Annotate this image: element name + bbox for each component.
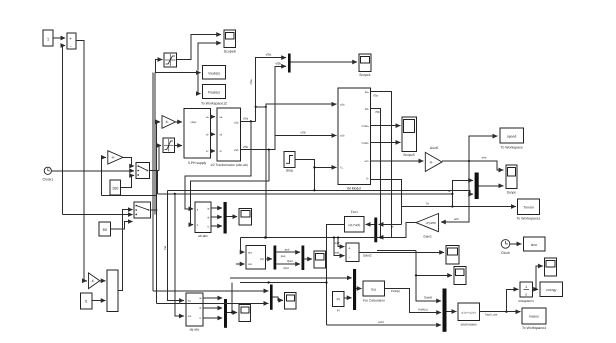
wire Constant60 to Switch2 input 3 bbox=[111, 222, 133, 230]
wire supply vb to transformation bbox=[210, 133, 215, 135]
wire Total Loss to junction bbox=[479, 311, 507, 317]
wire wm line into PQ block input bbox=[236, 263, 245, 265]
clock source Clock bbox=[501, 240, 510, 255]
constant block Constant 100 bbox=[110, 180, 121, 195]
svg-text:ab-abc: ab-abc bbox=[198, 234, 208, 238]
wire vSb riser into top mux input 2 bbox=[275, 61, 286, 135]
wire PsiRb to Scope5 bbox=[371, 141, 401, 143]
wire iSa output down to PQ bus bbox=[371, 92, 392, 238]
svg-text:Vsab(s): Vsab(s) bbox=[208, 71, 220, 75]
wire bus down to Psab(s) bbox=[198, 73, 201, 94]
wire bus to Mux8 input 1 bbox=[153, 290, 268, 292]
gain block Gain1 (left-pointing -2*pi/60) bbox=[416, 214, 439, 239]
wire Fcn output PsiR(u) to Mux11 input 2 bbox=[385, 289, 441, 313]
svg-text:PsiRa: PsiRa bbox=[362, 125, 369, 128]
junction current bus nodes bbox=[264, 236, 382, 238]
svg-text:Fcn1: Fcn1 bbox=[351, 210, 358, 214]
wire Clock to time workspace bbox=[510, 243, 522, 245]
wire stator current bus horizontal bbox=[241, 237, 392, 239]
svg-text:psid*: psid* bbox=[334, 241, 341, 245]
wire PsiRa to Scope5 bbox=[371, 125, 401, 127]
svg-text:vSa: vSa bbox=[249, 79, 253, 85]
mux Mux6 (dq-abc out) bbox=[224, 299, 227, 328]
svg-text:losses: losses bbox=[529, 315, 539, 319]
wire wm riser down to Gain1 input bbox=[441, 161, 469, 222]
subsystem block IM Model bbox=[338, 88, 371, 190]
wire Integrator to energy bbox=[532, 288, 538, 290]
wire Te output to torque bus bbox=[371, 180, 402, 207]
wire Integrator riser to Scope7 bbox=[536, 266, 543, 289]
junction Te node bbox=[451, 205, 453, 207]
svg-text:-2*pi/60: -2*pi/60 bbox=[425, 221, 436, 225]
function block total losses u(1)^2+u(2)^2 bbox=[458, 303, 479, 327]
to-workspace block Vsab(s) bbox=[203, 66, 226, 79]
svg-text:f(u): f(u) bbox=[371, 287, 376, 291]
subsystem block ab-abc bbox=[195, 202, 211, 238]
svg-text:PsiRb: PsiRb bbox=[362, 142, 369, 145]
svg-text:dq-abc: dq-abc bbox=[190, 328, 200, 332]
label vSb on wire bbox=[300, 131, 306, 135]
svg-text:Fcn Calculation: Fcn Calculation bbox=[363, 299, 385, 303]
svg-text:Clock: Clock bbox=[501, 251, 510, 255]
wire Fcn1 output left and down to psid bus bbox=[327, 224, 345, 325]
svg-text:PsiR(u): PsiR(u) bbox=[418, 308, 427, 312]
svg-text:vSa: vSa bbox=[266, 53, 272, 57]
wire wm riser to speed workspace bbox=[469, 136, 497, 161]
wire iSb output down to PQ bus bbox=[371, 109, 381, 238]
demux Demux2 (P,Q) bbox=[274, 246, 277, 270]
step source Step (load torque) bbox=[284, 152, 295, 173]
svg-text:Psab(s): Psab(s) bbox=[208, 91, 220, 95]
svg-text:thd: thd bbox=[163, 246, 167, 250]
sum block Sum1 bbox=[67, 33, 76, 49]
wire Saturation2 to 3-PH supply input 2 bbox=[175, 145, 183, 147]
svg-text:vSa: vSa bbox=[234, 122, 239, 125]
wire riser to dq-abc input 2 bbox=[175, 194, 184, 316]
svg-text:Te: Te bbox=[426, 202, 430, 206]
to-workspace block Tmotor bbox=[516, 199, 540, 221]
wire long psid bus A bbox=[230, 277, 352, 279]
svg-text:psq: psq bbox=[281, 254, 286, 258]
svg-text:energy: energy bbox=[546, 288, 557, 292]
to-workspace block losses bbox=[522, 308, 546, 330]
wire vSb branch to ab-abc input 2 bbox=[190, 150, 268, 225]
svg-text:PQ: PQ bbox=[260, 258, 264, 261]
wire Switch2 output stub bbox=[151, 209, 158, 211]
svg-text:iSa: iSa bbox=[365, 91, 369, 94]
svg-text:f1: f1 bbox=[85, 300, 88, 304]
mux Mux3 (P,Q) bbox=[302, 246, 305, 271]
wire Gain to Switch1 input 1 bbox=[123, 157, 134, 166]
wire Gain3 to 3-PH supply input 1 bbox=[176, 121, 183, 123]
svg-text:+: + bbox=[69, 36, 72, 41]
wire theta riser to dq-abc input 1 bbox=[168, 190, 184, 300]
wire Sum2 output to ScopeA bbox=[359, 251, 444, 253]
svg-text:iSb: iSb bbox=[375, 110, 380, 114]
wire loop bottom bbox=[102, 195, 157, 197]
svg-text:-K-: -K- bbox=[91, 279, 95, 283]
wire Mux11 to total losses bbox=[447, 311, 457, 313]
mux Mux (vSa,vSb) top bbox=[288, 54, 291, 73]
wire f1 to Mux4 bbox=[92, 300, 106, 302]
constant block f1 bbox=[80, 293, 92, 309]
mux Mux8 (flux components) bbox=[270, 285, 273, 310]
wire Saturation1 output to Scope6 input 1 bbox=[177, 35, 222, 60]
wire riser onto Mux6 output wire bbox=[231, 283, 233, 313]
subsystem block 3-PH supply bbox=[184, 109, 210, 165]
scope block Scope2 bbox=[239, 208, 252, 225]
wire long horizontal feed at y=72.6 bbox=[155, 72, 201, 74]
svg-text:psd: psd bbox=[285, 247, 290, 251]
svg-text:vSb: vSb bbox=[276, 61, 282, 65]
wire PQ to demux bbox=[266, 258, 272, 260]
switch block Switch2 bbox=[134, 202, 151, 218]
scope block Scope (wm,T) bbox=[506, 165, 517, 194]
wire torque tap into demux bbox=[401, 207, 403, 225]
junction vSa tap on bus bbox=[265, 236, 267, 238]
sum block Sum2 (flux error) bbox=[346, 243, 372, 262]
wire loop into Gain bbox=[102, 157, 106, 195]
wire riser into Saturation2 bbox=[159, 146, 161, 171]
gain block Gain5 bbox=[425, 146, 442, 172]
wire Mux5 to Scope2 bbox=[227, 216, 238, 218]
gain block Gain3 -K- (V/f) bbox=[162, 116, 176, 129]
wire right mux to Scope input 2 bbox=[479, 185, 504, 187]
svg-text:3-PH supply: 3-PH supply bbox=[188, 161, 207, 165]
wire Mux4 output up to Switch2 bbox=[118, 210, 133, 291]
svg-text:wm: wm bbox=[482, 155, 487, 159]
scope block Scope6 bbox=[224, 30, 236, 54]
wire demux tap to x416 riser bbox=[377, 249, 416, 251]
svg-text:To Workspace: To Workspace bbox=[501, 146, 523, 150]
scope block Scope8 (PQ) bbox=[314, 251, 326, 268]
label vSa on riser bbox=[249, 79, 253, 85]
subsystem block 1/2 Trasformation (abc-ab) bbox=[210, 108, 248, 167]
subsystem block PQ calculation bbox=[246, 246, 266, 270]
wire vSb output to IM Model vSb input bbox=[241, 136, 337, 151]
wire PI to Mux10 bbox=[344, 297, 352, 299]
wire bus to Mux8 input 2 bbox=[157, 302, 269, 304]
svg-text:Gain1: Gain1 bbox=[423, 234, 432, 238]
mux Mux10 (flux inputs) bbox=[353, 269, 356, 310]
to-workspace block speed bbox=[500, 128, 524, 150]
svg-text:-K-: -K- bbox=[429, 160, 433, 164]
mux Mux1 (Te,TL) right bbox=[475, 173, 479, 200]
wire into Saturation1 from bus riser bbox=[155, 60, 162, 73]
wire vSa tap down the page bbox=[265, 107, 267, 238]
wire feedback into Sum1 lower input bbox=[63, 46, 65, 215]
wire Mux3 to scope bbox=[304, 258, 312, 260]
wire vSa branch to ab-abc input 1 bbox=[185, 120, 252, 209]
svg-text:Scope: Scope bbox=[507, 190, 517, 194]
wire Gain5 wm line to scope bbox=[442, 155, 503, 170]
svg-text:Qsd: Qsd bbox=[283, 266, 289, 270]
wire Switch1 output bbox=[150, 170, 159, 172]
scope block Scope7 bbox=[545, 258, 557, 276]
label theta on riser bbox=[163, 246, 167, 250]
svg-text:wm: wm bbox=[365, 160, 369, 163]
svg-text:vSa: vSa bbox=[340, 103, 345, 106]
svg-text:iSb: iSb bbox=[365, 108, 369, 111]
wire supply va to transformation bbox=[210, 116, 215, 118]
pi block PI bbox=[333, 292, 344, 313]
wire Constant100 to Switch1 input 3 bbox=[121, 176, 135, 188]
svg-text:speed: speed bbox=[507, 134, 516, 138]
wire Te riser into right mux input 1 bbox=[452, 180, 473, 206]
svg-text:Qsm: Qsm bbox=[287, 259, 294, 263]
wire vSa output from transformation bbox=[241, 117, 256, 122]
wire bus to Scope6 input 2 bbox=[198, 43, 221, 71]
saturation block Saturation2 bbox=[163, 138, 175, 153]
mux Mux4 (frequency, f1) bbox=[107, 270, 118, 312]
svg-text:Integrator1: Integrator1 bbox=[518, 299, 534, 303]
svg-text:Te: Te bbox=[448, 189, 451, 193]
wire long bus B with junction bbox=[240, 281, 328, 283]
demux Demux (Te,wsl) bbox=[374, 218, 377, 243]
svg-text:psid: psid bbox=[334, 250, 340, 254]
wire dq-abc outputs to Mux6 bbox=[203, 297, 222, 299]
wire Mux6 to Scope3 bbox=[227, 312, 237, 314]
svg-text:1: 1 bbox=[525, 285, 527, 289]
svg-text:Clock1: Clock1 bbox=[42, 178, 53, 182]
svg-text:Gain5: Gain5 bbox=[430, 146, 439, 150]
junction on scope3 wire bbox=[231, 311, 233, 313]
junction wm node bbox=[468, 160, 470, 162]
subsystem block dq-abc bbox=[186, 293, 203, 332]
mux Mux5 (three phase currents) bbox=[224, 202, 227, 234]
svg-text:u(1)*u(2): u(1)*u(2) bbox=[348, 223, 360, 227]
function block Fcn Calculation f(u) bbox=[363, 281, 385, 303]
svg-text:total losses: total losses bbox=[461, 323, 477, 327]
wire x416 riser to ScopeB bbox=[416, 250, 452, 275]
constant block Constant 60 bbox=[99, 222, 111, 236]
svg-text:vSb: vSb bbox=[300, 131, 306, 135]
wire Clock1 to Switch1 control bbox=[51, 170, 134, 172]
junction x416 bbox=[415, 274, 417, 276]
svg-text:-K-: -K- bbox=[111, 156, 115, 160]
svg-text:s: s bbox=[525, 293, 527, 297]
to-workspace block Psab(s) bbox=[201, 85, 227, 106]
wire second long bus at y=193.8 bbox=[157, 189, 453, 195]
svg-text:Total Loss: Total Loss bbox=[485, 312, 498, 316]
svg-text:abc: abc bbox=[248, 251, 253, 254]
wire Sum1 output down to Gain4 bbox=[76, 41, 87, 281]
svg-text:-K-: -K- bbox=[165, 120, 169, 124]
wire to losses workspace bbox=[507, 311, 521, 313]
wire Gain4 to Mux4 bbox=[100, 280, 106, 282]
scope block Scope1 bbox=[359, 54, 371, 77]
svg-text:Step: Step bbox=[286, 169, 293, 173]
svg-text:u(1)^2+u(2)^2: u(1)^2+u(2)^2 bbox=[461, 311, 476, 314]
to-workspace block energy bbox=[540, 282, 563, 296]
wire ab-abc outputs to Mux5 bbox=[211, 207, 222, 209]
svg-text:psid: psid bbox=[378, 320, 384, 324]
function block Fcn1 u(1)*u(2) (mirrored) bbox=[366, 223, 375, 225]
svg-text:To Workspace4: To Workspace4 bbox=[522, 326, 546, 330]
svg-text:1/2 Trasformation (abc-ab): 1/2 Trasformation (abc-ab) bbox=[210, 163, 248, 167]
svg-text:To Workspace12: To Workspace12 bbox=[201, 101, 227, 105]
label vSa at top mux bbox=[266, 53, 272, 57]
svg-text:IM Model: IM Model bbox=[347, 186, 361, 190]
wire wm to Gain5 bbox=[371, 160, 424, 162]
svg-text:Te: Te bbox=[390, 225, 394, 229]
wire Q line to Mux3 bbox=[276, 259, 300, 270]
wire riser into Gain3 bbox=[157, 122, 161, 171]
svg-text:vSa: vSa bbox=[243, 117, 249, 121]
clock source Clock1 bbox=[42, 167, 53, 181]
wire Step to IM Model TL input bbox=[295, 160, 336, 168]
svg-text:Scope5: Scope5 bbox=[403, 153, 415, 157]
wire Gain1 output to demux bbox=[379, 223, 416, 238]
svg-text:Gain6: Gain6 bbox=[424, 296, 432, 300]
svg-text:iSa: iSa bbox=[373, 94, 378, 98]
wire supply vc to transformation bbox=[210, 150, 215, 152]
svg-text:PI: PI bbox=[337, 298, 340, 302]
to-workspace block time bbox=[523, 237, 545, 251]
wire vSa jog to IM Model input bbox=[256, 104, 337, 107]
svg-text:wm: wm bbox=[248, 263, 252, 266]
wire x416 down to Mux11 input1 (Gain6) bbox=[416, 275, 441, 301]
svg-text:To Workspace1: To Workspace1 bbox=[516, 217, 540, 221]
integrator block Integrator1 1/s bbox=[518, 282, 534, 303]
constant block Constant (value 1) bbox=[43, 30, 53, 46]
wire up to Integrator bbox=[507, 289, 519, 311]
wire Constant to Sum bbox=[53, 37, 65, 39]
wire psid bottom bus to Mux11 input 3 bbox=[327, 320, 442, 325]
wire clock bus to Switch2 control bbox=[63, 214, 133, 216]
wire Mux8 to Scope4 bbox=[273, 297, 283, 300]
wire P line to Mux3 bbox=[276, 247, 300, 257]
scope block Scope4 bbox=[285, 293, 296, 310]
wire riser bundle from V/f node bbox=[152, 73, 154, 291]
wire torque line to Tmotor workspace bbox=[402, 202, 516, 207]
svg-text:time: time bbox=[531, 243, 538, 247]
svg-text:PI: PI bbox=[337, 308, 340, 312]
wire Mux10 to Fcn bbox=[356, 288, 361, 290]
svg-text:vSb: vSb bbox=[340, 135, 345, 138]
junction vSa jog bbox=[255, 106, 267, 108]
gain block Gain4 -K- bbox=[89, 273, 100, 289]
gain block Gain -K- (slip) bbox=[108, 151, 123, 164]
svg-text:vSqs: vSqs bbox=[191, 121, 197, 124]
mux Mux11 (losses inputs) bbox=[443, 289, 447, 332]
junction TL bus nodes bbox=[313, 189, 315, 191]
svg-text:60: 60 bbox=[103, 228, 107, 232]
svg-text:vSb: vSb bbox=[234, 149, 239, 152]
wire vSa riser up to top mux region bbox=[256, 58, 286, 122]
svg-text:100: 100 bbox=[112, 187, 118, 191]
svg-text:PsiR(u): PsiR(u) bbox=[391, 289, 400, 293]
svg-text:Tmotor: Tmotor bbox=[523, 205, 535, 209]
wire psid into Sum2 bbox=[334, 238, 344, 256]
svg-text:Gain2: Gain2 bbox=[363, 254, 372, 258]
junction on Vsab bus bbox=[197, 72, 199, 74]
scope block ScopeB bbox=[454, 267, 466, 285]
scope block Scope3 bbox=[239, 305, 251, 322]
svg-text:wm: wm bbox=[454, 217, 459, 221]
wire Step tap down to long TL bus bbox=[313, 166, 315, 190]
wire bus into PQ block input abc bbox=[241, 238, 245, 253]
wire top mux to Scope1 bbox=[291, 61, 357, 63]
svg-text:vSb: vSb bbox=[243, 145, 249, 149]
scope block ScopeA (flux err) bbox=[446, 246, 459, 264]
scope block Scope5 bbox=[402, 117, 416, 157]
wire TL bus into right mux input 2 bbox=[168, 190, 474, 194]
saturation block Saturation1 bbox=[164, 53, 177, 67]
switch block Switch1 bbox=[136, 163, 150, 179]
wire psid* into Sum2 bbox=[334, 238, 344, 247]
svg-text:Scope6: Scope6 bbox=[224, 50, 236, 54]
svg-text:Scope1: Scope1 bbox=[359, 73, 371, 77]
